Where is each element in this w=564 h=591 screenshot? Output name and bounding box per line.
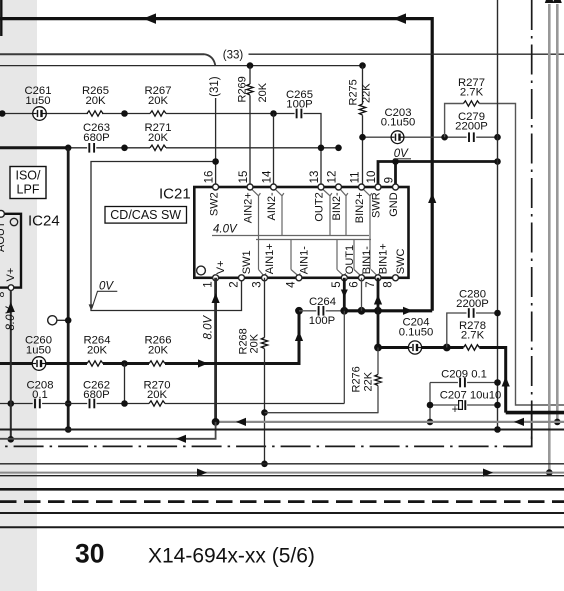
svg-text:OUT2: OUT2 <box>314 192 326 221</box>
svg-text:AOUT: AOUT <box>0 221 7 252</box>
svg-text:SW1: SW1 <box>241 250 253 274</box>
svg-text:R275: R275 <box>348 79 360 105</box>
wire (33) <box>0 53 204 55</box>
capacitor C209 <box>430 382 498 384</box>
wire y489.6 <box>0 488 564 491</box>
svg-text:20K: 20K <box>85 95 106 107</box>
svg-text:V+: V+ <box>215 260 227 274</box>
wire C204 row <box>378 348 506 413</box>
wire IC24 pin8 8.0V <box>10 290 12 439</box>
svg-text:0.1u50: 0.1u50 <box>399 326 434 338</box>
svg-text:7: 7 <box>365 281 377 287</box>
wire pin5 column <box>343 278 346 311</box>
svg-text:R276: R276 <box>351 366 363 392</box>
wire y462 <box>0 463 564 465</box>
svg-text:AIN1+: AIN1+ <box>264 243 276 274</box>
IC21 pin 5 OUT1 <box>341 275 347 281</box>
svg-text:20K: 20K <box>148 344 169 356</box>
svg-text:9: 9 <box>384 177 396 183</box>
capacitor C263 <box>88 143 90 153</box>
grey bus vertical 1 <box>548 4 551 473</box>
svg-text:R269: R269 <box>237 76 249 102</box>
IC21 pin 15 AIN2+ <box>247 184 253 190</box>
wire jog to left <box>0 422 216 439</box>
svg-text:3: 3 <box>251 281 263 287</box>
capacitor C265 <box>296 109 298 119</box>
capacitor C262 <box>89 399 91 409</box>
svg-text:4.0V: 4.0V <box>213 223 238 235</box>
wire SW loop box <box>91 162 242 311</box>
capacitor C203 <box>391 131 404 144</box>
wire A <box>0 114 321 187</box>
resistor R267 <box>150 111 166 116</box>
label box CD/CAS SW <box>105 207 187 224</box>
svg-text:680P: 680P <box>83 389 109 401</box>
capacitor C264 <box>318 306 320 316</box>
IC21 pin 1 V+ <box>213 275 219 281</box>
svg-text:CD/CAS SW: CD/CAS SW <box>110 208 181 222</box>
grey bus vertical 2 <box>556 4 559 422</box>
resistor R264 <box>87 361 103 366</box>
wire y526.5 <box>0 526 564 528</box>
svg-text:0V: 0V <box>99 280 114 292</box>
svg-text:(31): (31) <box>209 76 221 97</box>
wire dashed y501.5 <box>0 500 564 503</box>
junction R269/top wire <box>247 62 254 69</box>
wire y413 link <box>265 412 379 414</box>
wire pin7 column <box>377 278 380 348</box>
capacitor C208 <box>34 399 36 409</box>
svg-text:8.0V: 8.0V <box>5 306 17 331</box>
svg-text:BIN1-: BIN1- <box>361 246 373 274</box>
wire D <box>0 311 299 364</box>
svg-text:2.7K: 2.7K <box>460 87 484 99</box>
svg-text:0.1u50: 0.1u50 <box>381 117 416 129</box>
wire grey y471.4 <box>0 472 564 474</box>
wire vertical x68 <box>67 148 70 430</box>
svg-text:8: 8 <box>0 292 7 298</box>
svg-text:10: 10 <box>366 171 378 184</box>
svg-text:BIN2-: BIN2- <box>331 192 343 220</box>
svg-text:C264: C264 <box>309 296 336 308</box>
svg-text:IC24: IC24 <box>28 213 60 230</box>
capacitor C207 <box>430 404 498 406</box>
wire y475.6 <box>0 475 564 477</box>
IC21 pin 7 BIN1+ <box>375 275 381 281</box>
svg-text:2200P: 2200P <box>455 121 488 133</box>
svg-text:100P: 100P <box>309 315 335 327</box>
svg-text:AIN1-: AIN1- <box>298 246 310 274</box>
svg-text:13: 13 <box>309 171 321 184</box>
resistor R266 <box>149 361 165 366</box>
IC21 pin 2 SW1 <box>239 275 245 281</box>
IC21 pin 9 GND <box>393 184 399 190</box>
op-amp IC21 box <box>194 187 408 278</box>
svg-text:2.7K: 2.7K <box>461 330 485 342</box>
resistor R265 <box>87 111 103 116</box>
resistor R268 <box>264 278 266 464</box>
svg-text:2200P: 2200P <box>456 298 489 310</box>
svg-text:8.0V: 8.0V <box>203 315 215 340</box>
corner mark <box>0 0 2 36</box>
IC21 pin 13 OUT2 <box>318 184 324 190</box>
wire (31) <box>204 54 215 66</box>
svg-text:11: 11 <box>350 171 362 183</box>
IC21 pin 8 SWC <box>393 275 399 281</box>
svg-text:8: 8 <box>382 281 394 287</box>
capacitor C261 <box>33 107 47 121</box>
svg-text:20K: 20K <box>249 333 261 353</box>
wire C264 row <box>299 310 344 312</box>
capacitor C280 branch <box>447 313 498 348</box>
svg-text:680P: 680P <box>83 132 109 144</box>
capacitor C279 <box>468 132 470 142</box>
IC21 pin 4 AIN1- <box>296 275 302 281</box>
wire y403 <box>0 403 344 405</box>
svg-text:AIN2+: AIN2+ <box>243 192 255 223</box>
resistor R269 <box>249 66 251 187</box>
junction R275/top wire <box>359 62 366 69</box>
svg-text:LPF: LPF <box>17 183 40 197</box>
wire y66 <box>0 65 363 67</box>
resistor R277 branch <box>445 104 564 406</box>
svg-text:22K: 22K <box>361 83 373 103</box>
svg-text:6: 6 <box>348 281 360 287</box>
svg-text:GND: GND <box>388 192 400 217</box>
capacitor C260 <box>32 357 46 371</box>
wire vertical x497 <box>497 0 499 430</box>
wire 0V C203 <box>363 136 498 138</box>
svg-text:15: 15 <box>238 171 250 184</box>
op-amp IC24 box <box>0 214 21 288</box>
svg-text:X14-694x-xx (5/6): X14-694x-xx (5/6) <box>148 545 315 568</box>
wire B <box>0 146 68 149</box>
IC21 pin 16 SW2 <box>213 184 219 190</box>
svg-text:0.1: 0.1 <box>32 389 48 401</box>
svg-text:5: 5 <box>331 281 343 287</box>
wire y429.5 <box>0 428 564 430</box>
svg-text:(33): (33) <box>223 49 244 61</box>
svg-text:20K: 20K <box>257 82 269 102</box>
wire 0V net <box>378 162 498 187</box>
resistor R270 <box>149 401 165 406</box>
svg-text:C207 10u10: C207 10u10 <box>440 389 502 401</box>
IC21 internal switches <box>212 189 379 276</box>
svg-text:BIN2+: BIN2+ <box>354 192 366 223</box>
capacitor C204 <box>408 341 421 354</box>
svg-text:20K: 20K <box>147 389 168 401</box>
IC21 pin 12 BIN2- <box>336 184 342 190</box>
svg-text:V+: V+ <box>5 268 17 282</box>
svg-text:14: 14 <box>262 170 274 183</box>
page margin band <box>0 0 37 591</box>
svg-text:AIN2-: AIN2- <box>266 192 278 220</box>
svg-text:OUT1: OUT1 <box>344 245 356 274</box>
svg-text:20K: 20K <box>87 344 108 356</box>
wire thick top bus <box>0 19 432 311</box>
svg-text:C209 0.1: C209 0.1 <box>441 369 487 381</box>
wire pin6 stub <box>361 278 363 311</box>
IC21 pin 14 AIN2- <box>271 184 277 190</box>
svg-text:20K: 20K <box>148 95 169 107</box>
svg-text:4: 4 <box>286 281 298 288</box>
resistor R271 <box>150 145 166 150</box>
wire node 31 vertical to pin16 <box>215 98 217 187</box>
svg-text:20K: 20K <box>148 132 169 144</box>
resistor R276 <box>265 348 379 413</box>
wire y512 <box>0 512 564 514</box>
svg-text:1u50: 1u50 <box>25 95 50 107</box>
svg-text:100P: 100P <box>286 99 312 111</box>
svg-text:+: + <box>452 404 459 416</box>
svg-text:BIN1+: BIN1+ <box>378 243 390 274</box>
svg-text:SW2: SW2 <box>208 192 220 216</box>
svg-text:22K: 22K <box>363 371 375 391</box>
wire 8.0V to pin1 <box>214 278 217 422</box>
wire pin14 column <box>273 114 275 187</box>
svg-text:12: 12 <box>327 171 339 184</box>
page boundary dash-dot <box>0 0 532 446</box>
IC21 pin 3 AIN1+ <box>262 275 268 281</box>
svg-text:SWC: SWC <box>395 248 407 274</box>
resistor R275 <box>362 66 364 187</box>
IC21 pin 6 BIN1- <box>359 275 365 281</box>
svg-text:IC21: IC21 <box>159 186 191 203</box>
svg-text:16: 16 <box>204 171 216 184</box>
svg-text:2: 2 <box>228 281 240 287</box>
connector stub <box>57 319 68 321</box>
svg-text:SWR: SWR <box>371 192 383 218</box>
svg-text:ISO/: ISO/ <box>15 169 41 183</box>
label box ISO/LPF <box>10 167 46 199</box>
IC21 pin 11 BIN2+ <box>359 184 365 190</box>
svg-text:1u50: 1u50 <box>26 344 51 356</box>
svg-text:30: 30 <box>75 539 104 569</box>
resistor R278 <box>463 345 479 350</box>
svg-text:1: 1 <box>202 281 214 287</box>
wire grey y422 <box>216 421 564 423</box>
IC21 pin 10 SWR <box>375 184 381 190</box>
wire x430 vertical <box>429 383 431 422</box>
